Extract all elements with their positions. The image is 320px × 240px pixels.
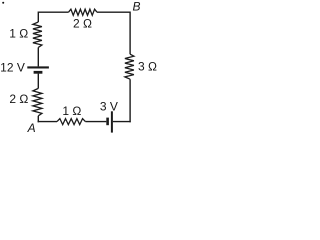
resistor R-top 2ohm (horizontal) — [69, 9, 98, 15]
wire 2ohm to node A corner — [37, 116, 39, 123]
svg-text:3 Ω: 3 Ω — [138, 60, 157, 74]
svg-text:2 Ω: 2 Ω — [9, 92, 28, 106]
wire node A to bottom resistor — [38, 121, 57, 123]
battery 3V short plate — [106, 118, 109, 126]
svg-text:A: A — [27, 121, 36, 134]
stray dot top-left — [2, 2, 4, 4]
resistor R2 2ohm (vertical left lower) — [33, 88, 42, 115]
svg-text:2 Ω: 2 Ω — [73, 16, 92, 30]
svg-text:12 V: 12 V — [0, 61, 25, 75]
wire right vertical lower — [129, 79, 131, 122]
wire top-left corner to top resistor — [38, 11, 69, 13]
wire left vertical upper — [37, 12, 39, 23]
svg-text:1 Ω: 1 Ω — [9, 27, 28, 41]
resistor R1 1ohm (vertical left) — [33, 22, 42, 47]
battery 3V long plate — [111, 111, 113, 132]
wire top resistor to node B corner — [97, 11, 130, 13]
wire bottom resistor to 3V battery — [85, 121, 106, 123]
wire 12V battery to 2ohm resistor — [37, 74, 39, 89]
svg-text:B: B — [132, 0, 140, 14]
svg-text:1 Ω: 1 Ω — [62, 104, 81, 118]
wire 3V battery to bottom-right corner — [113, 121, 131, 123]
battery 12V long plate — [27, 66, 49, 68]
svg-text:3 V: 3 V — [100, 100, 118, 114]
battery 12V short plate — [34, 71, 43, 74]
wire 1ohm to 12V battery — [37, 47, 39, 66]
resistor R3 3ohm (vertical right) — [125, 54, 134, 79]
wire 3ohm to node B corner — [129, 12, 131, 55]
resistor R-bottom 1ohm (horizontal) — [57, 119, 85, 125]
